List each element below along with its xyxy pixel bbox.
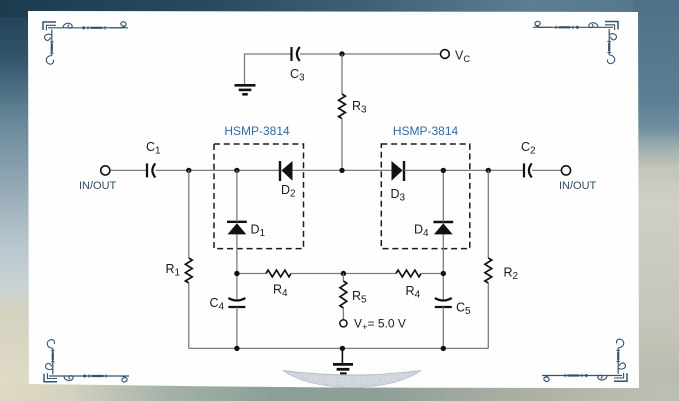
wire: R5 upper stub — [342, 274, 344, 282]
node: top junction at R3 — [339, 51, 344, 56]
svg-text:IN/OUT: IN/OUT — [79, 180, 117, 192]
node: bottom rail at C4 — [234, 346, 239, 351]
node: main line at D4 branch — [441, 168, 446, 173]
dashed box HSMP-3814 left — [214, 144, 304, 249]
wire: R4 row right segment — [421, 273, 443, 275]
diode D4 — [433, 222, 453, 234]
resistor R4 right — [396, 270, 421, 277]
wire: C2 to right terminal — [532, 169, 561, 171]
wire: C4 to bottom rail — [236, 307, 238, 348]
wire: R1 branch lower — [188, 283, 190, 348]
diode D2 — [280, 161, 293, 181]
wire: R1 branch upper — [188, 170, 190, 258]
wire: D3 to C2 — [404, 169, 524, 171]
resistor R4 left — [266, 270, 291, 277]
wire: R4 row middle — [291, 273, 396, 275]
capacitor C3 — [292, 47, 300, 61]
capacitor C5 — [435, 298, 452, 307]
wire: top-left ground to C3 — [245, 54, 292, 85]
ornament bottom-left — [44, 340, 129, 382]
ground (top left, at C3) — [235, 85, 256, 94]
svg-text:HSMP-3814: HSMP-3814 — [393, 124, 459, 138]
wire: R2 branch upper — [487, 170, 489, 258]
capacitor C2 — [524, 163, 532, 177]
wire: main line down to D4 cathode — [442, 170, 444, 222]
ornament top-left — [43, 22, 128, 64]
wire: R3 column upper — [341, 54, 343, 94]
wire: C5 to bottom rail — [442, 307, 444, 348]
terminal IN/OUT right — [561, 166, 570, 175]
watermark flourish bottom center — [283, 371, 421, 388]
wire: R2 branch lower — [487, 283, 489, 348]
capacitor C4 — [228, 298, 245, 307]
wire: C3 to Vc terminal — [300, 53, 441, 55]
terminal Vc — [441, 50, 450, 59]
wire: R4 row left segment — [237, 273, 266, 275]
svg-text:IN/OUT: IN/OUT — [559, 180, 597, 192]
wire: R5 to V+ terminal — [342, 308, 344, 320]
ornament top-right — [533, 21, 618, 63]
wire: left terminal to C1 — [110, 169, 147, 171]
node: main line at R1 branch — [186, 168, 191, 173]
wire: main line down to D1 cathode — [236, 170, 238, 221]
wire: D2 to D3 through R3 node — [293, 169, 392, 171]
node: R4 row at R5 — [341, 271, 346, 276]
node: R4 row at D4 branch — [441, 271, 446, 276]
resistor R3 — [339, 94, 346, 119]
node: bottom rail at C5 — [441, 346, 446, 351]
svg-text:HSMP-3814: HSMP-3814 — [224, 124, 290, 138]
diode D1 — [227, 222, 247, 235]
node: main line at R2 branch — [486, 168, 491, 173]
resistor R2 — [485, 258, 492, 283]
wire: R3 column lower — [341, 119, 343, 171]
resistor R5 — [340, 281, 347, 308]
wire: bottom rail — [189, 347, 489, 349]
terminal V+ — [340, 320, 347, 327]
dashed box HSMP-3814 right — [381, 144, 470, 249]
ground (bottom center) — [333, 348, 353, 373]
terminal IN/OUT left — [101, 166, 110, 175]
node: R4 row at D1 branch — [234, 271, 239, 276]
wire: D4 anode down to R4 row — [442, 234, 444, 300]
diode D3 — [392, 161, 405, 181]
node: bottom rail at ground — [340, 346, 345, 351]
resistor R1 — [185, 258, 192, 283]
wire: C1 to D2 anode (main line) — [156, 169, 281, 171]
ornament bottom-right — [542, 339, 627, 381]
wire: D1 anode down to R4 row — [236, 234, 238, 300]
capacitor C1 — [147, 163, 155, 177]
node: main line center at R3 — [339, 168, 344, 173]
node: main line at D1 branch — [234, 168, 239, 173]
